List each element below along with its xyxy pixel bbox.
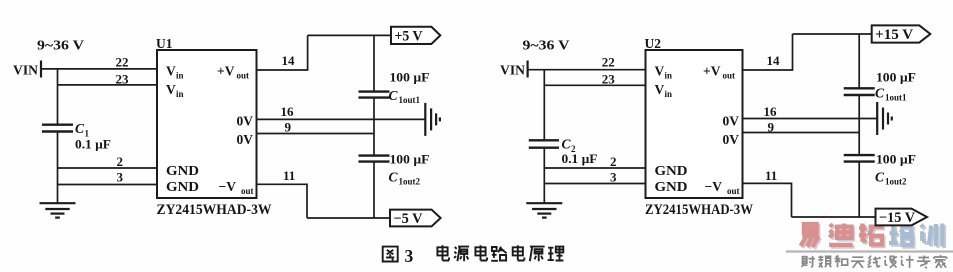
label C1out2: [389, 170, 421, 187]
svg-text:GND: GND: [166, 179, 199, 194]
node VIN terminal 2: [500, 61, 528, 78]
pin label Vin (22): [655, 64, 673, 81]
svg-text:23: 23: [602, 72, 616, 87]
label C1out2: [875, 170, 907, 187]
svg-text:1out2: 1out2: [885, 177, 907, 187]
svg-text:GND: GND: [655, 163, 688, 178]
svg-text:11: 11: [765, 168, 777, 183]
svg-text:1out1: 1out1: [885, 93, 907, 103]
wire +V top net: [308, 34, 391, 36]
capacitor C1out2 (U2): [844, 155, 875, 162]
wire C1out1 to 0V rail: [373, 98, 375, 157]
svg-text:C: C: [75, 121, 85, 136]
label C1out1: [389, 88, 421, 105]
svg-text:−5 V: −5 V: [394, 211, 424, 227]
wire -V bottom net: [792, 216, 876, 218]
wire VIN branch down to C1: [57, 69, 59, 126]
wire pin23 net: [544, 84, 645, 86]
svg-text:out: out: [237, 71, 250, 81]
wire pin16 0V net: [257, 118, 425, 120]
svg-text:2: 2: [610, 154, 617, 169]
svg-text:+5 V: +5 V: [395, 28, 423, 44]
ground (output 0V side 2): [877, 102, 892, 135]
svg-text:V: V: [655, 82, 665, 97]
svg-text:C: C: [875, 170, 885, 185]
wire pin22 net (VIN to U1): [41, 68, 157, 70]
ground (output 0V side 1): [425, 103, 440, 136]
svg-text:C: C: [562, 137, 572, 152]
wire pin16 0V net: [743, 118, 877, 120]
wire C1out2 to -V rail: [858, 162, 860, 217]
node VIN terminal 1: [13, 61, 41, 78]
output arrow -15 V: [876, 209, 928, 226]
svg-text:VIN: VIN: [13, 63, 38, 78]
output arrow +5 V: [391, 27, 440, 45]
svg-text:3: 3: [405, 246, 414, 266]
wire pin14 stub: [743, 34, 793, 70]
svg-text:C: C: [389, 88, 399, 103]
svg-text:out: out: [723, 71, 736, 81]
wire C1 to input ground: [57, 132, 59, 204]
wire C1out2 to -V rail: [373, 162, 375, 218]
svg-text:0V: 0V: [237, 132, 254, 147]
svg-text:in: in: [665, 71, 673, 81]
svg-text:3: 3: [610, 170, 617, 185]
svg-text:−V: −V: [219, 179, 237, 194]
svg-text:in: in: [665, 89, 673, 99]
svg-text:ZY2415WHAD-3W: ZY2415WHAD-3W: [645, 202, 753, 218]
watermark logo text: [801, 224, 944, 249]
svg-text:C: C: [875, 86, 885, 101]
pin label Vin (22): [166, 64, 184, 81]
capacitor C1out1 (U1): [359, 92, 390, 98]
svg-text:2: 2: [117, 154, 124, 169]
caption: 图3 电源电路电原理: [383, 245, 564, 266]
svg-text:100 µF: 100 µF: [876, 70, 916, 85]
svg-text:9: 9: [285, 120, 292, 135]
svg-text:V: V: [166, 82, 176, 97]
svg-text:VIN: VIN: [500, 63, 525, 78]
wire pin3 net: [58, 184, 158, 186]
svg-text:16: 16: [281, 104, 295, 119]
module U1 (ZY2415WHAD-3W): [157, 50, 257, 198]
svg-text:+V: +V: [217, 64, 235, 79]
pin label -Vout: [705, 179, 740, 196]
watermark tagline text: [802, 255, 947, 268]
svg-text:22: 22: [602, 55, 615, 70]
output arrow -5 V: [390, 210, 441, 227]
wire +V rail to C1out1: [858, 34, 860, 89]
svg-text:16: 16: [764, 104, 778, 119]
svg-text:1out2: 1out2: [399, 177, 421, 187]
capacitor C1out2 (U1): [359, 156, 390, 162]
wire VIN branch down to C2: [543, 70, 545, 142]
svg-text:C: C: [389, 170, 399, 185]
svg-text:14: 14: [767, 53, 781, 68]
module U2 (ZY2415WHAD-3W): [646, 50, 743, 198]
svg-text:0.1 µF: 0.1 µF: [562, 151, 598, 166]
ground (input side 2): [526, 203, 562, 217]
svg-text:−V: −V: [705, 179, 723, 194]
svg-text:−15 V: −15 V: [879, 210, 916, 226]
svg-text:100 µF: 100 µF: [876, 152, 916, 167]
svg-text:1out1: 1out1: [399, 95, 421, 105]
wire C2 to input ground: [543, 148, 545, 203]
label C1out1: [875, 86, 907, 103]
pin label +Vout: [703, 64, 735, 81]
wire pin22 net (VIN to U2): [528, 69, 646, 71]
svg-text:0V: 0V: [237, 114, 254, 129]
pin label Vin (23): [655, 82, 673, 99]
wire +V rail to C1out1: [373, 35, 375, 92]
wire pin11 stub: [743, 183, 792, 217]
svg-text:14: 14: [282, 53, 296, 68]
svg-text:V: V: [655, 64, 665, 79]
wire pin2 net: [58, 167, 158, 169]
svg-text:9: 9: [768, 120, 775, 135]
svg-text:V: V: [166, 64, 176, 79]
svg-text:+15 V: +15 V: [875, 27, 914, 43]
wire pin23 net: [58, 84, 158, 86]
wire pin9 0V net: [257, 133, 375, 135]
svg-text:100 µF: 100 µF: [390, 152, 430, 167]
wire -V bottom net: [307, 217, 390, 219]
wire pin3 net: [544, 183, 645, 185]
svg-text:in: in: [176, 71, 184, 81]
label C2: [562, 137, 577, 155]
svg-text:9~36 V: 9~36 V: [523, 38, 570, 53]
pin label Vin (23): [166, 82, 184, 99]
wire +V top net: [793, 33, 872, 35]
pin label +Vout: [217, 64, 249, 81]
capacitor C2: [529, 140, 559, 147]
svg-text:23: 23: [116, 72, 130, 87]
svg-text:GND: GND: [655, 179, 688, 194]
svg-text:in: in: [176, 89, 184, 99]
capacitor C1out1 (U2): [844, 88, 875, 95]
svg-text:U2: U2: [645, 36, 662, 51]
wire pin2 net: [544, 167, 645, 169]
svg-text:U1: U1: [156, 36, 173, 51]
svg-text:0V: 0V: [723, 132, 740, 147]
svg-text:0V: 0V: [723, 114, 740, 129]
svg-text:100 µF: 100 µF: [390, 70, 430, 85]
svg-text:3: 3: [117, 170, 124, 185]
svg-text:11: 11: [283, 168, 295, 183]
watermark divider rule: [786, 250, 953, 252]
svg-text:22: 22: [116, 55, 129, 70]
svg-text:0.1 µF: 0.1 µF: [75, 137, 111, 152]
svg-text:out: out: [241, 186, 254, 196]
pin label -Vout: [219, 179, 254, 196]
svg-text:ZY2415WHAD-3W: ZY2415WHAD-3W: [157, 202, 272, 218]
svg-text:+V: +V: [703, 64, 721, 79]
wire C1out1 to 0V rail: [858, 95, 860, 156]
label C1: [75, 121, 90, 139]
wire pin9 0V net: [743, 132, 860, 134]
wire pin14 stub: [257, 35, 308, 70]
capacitor C1: [42, 125, 73, 132]
svg-text:9~36 V: 9~36 V: [37, 38, 84, 53]
ground (input side 1): [40, 203, 76, 217]
svg-text:GND: GND: [166, 163, 199, 178]
svg-text:out: out: [727, 186, 740, 196]
output arrow +15 V: [872, 25, 931, 43]
wire pin11 stub: [257, 184, 308, 218]
